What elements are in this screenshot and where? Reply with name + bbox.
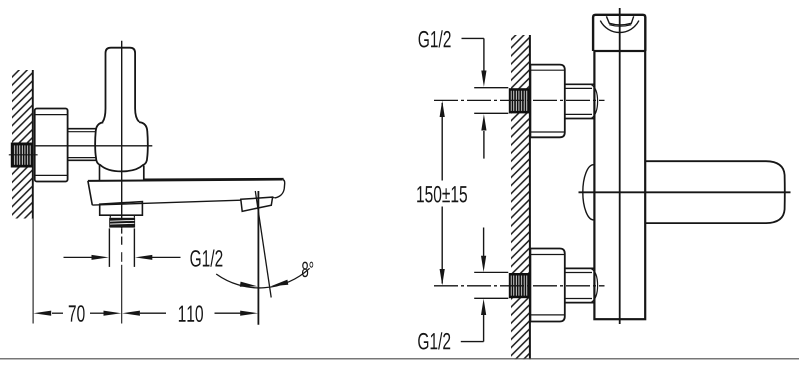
110 label xyxy=(179,305,203,322)
bottom threaded nipple G1/2 xyxy=(509,273,531,298)
bottom line xyxy=(92,200,241,205)
dim 150 top arrowhead xyxy=(440,101,445,117)
top line xyxy=(88,180,282,181)
G1/2 bottom leader arrowhead (up) xyxy=(481,299,486,315)
inlet centerline xyxy=(9,154,38,156)
top threaded nipple G1/2 xyxy=(509,88,531,113)
150+-15 dimension xyxy=(441,103,443,181)
slanted 8 deg line xyxy=(255,191,271,298)
extension lines top nipple xyxy=(474,87,508,89)
tip right edge curve xyxy=(275,180,285,198)
shower outlet collar xyxy=(100,202,143,216)
top eccentric flange xyxy=(530,65,564,138)
G1/2 dimension (outlet) xyxy=(64,256,181,258)
bottom union pipe xyxy=(565,268,598,302)
body neck to spout xyxy=(99,165,101,180)
8 deg angle: vertical reference line xyxy=(257,191,259,325)
extension line to dimension line xyxy=(121,252,123,262)
wall face line xyxy=(32,70,34,219)
wall (hatched) xyxy=(511,35,530,359)
G1/2 bottom label + leader xyxy=(418,332,450,349)
faucet body (tall) xyxy=(594,51,645,319)
threaded outlet ring G1/2 xyxy=(109,218,135,228)
extension lines bottom nipple xyxy=(474,271,508,273)
angle arc xyxy=(216,268,309,288)
aerator mouthpiece (8 deg) xyxy=(241,197,273,211)
dim 70 left arrowhead xyxy=(33,311,51,316)
wall (hatched) xyxy=(12,70,32,219)
handle lever xyxy=(103,48,139,122)
connecting pipe flange-to-body xyxy=(68,129,97,161)
70 label xyxy=(69,305,85,322)
threaded inlet nipple G1/2 xyxy=(11,143,33,168)
arc arrowheads xyxy=(240,282,258,287)
G1/2 bottom arrowhead (down) xyxy=(481,256,486,272)
G1/2 top leader arrowhead (down) xyxy=(481,71,486,87)
handle cap on top xyxy=(593,15,645,51)
top connection centerline (dash-dot) xyxy=(434,99,605,101)
G1/2 dim left arrowhead xyxy=(92,255,109,260)
spout horizontal centerline xyxy=(579,191,791,193)
wall flange (escutcheon) xyxy=(35,109,68,182)
far top edge xyxy=(144,178,283,181)
neck ticks xyxy=(109,215,111,218)
G1/2 top arrowhead (up) xyxy=(481,114,486,130)
horizontal centerline through body xyxy=(35,145,153,147)
bottom eccentric flange xyxy=(530,249,564,322)
left edge xyxy=(88,181,92,205)
dim 110 right arrowhead xyxy=(240,311,258,316)
extension line from wall face (dim 70) xyxy=(32,219,34,324)
G1/2 label (outlet) xyxy=(190,250,222,267)
G1/2 top label + leader xyxy=(419,30,451,47)
handle grip cup xyxy=(606,16,633,25)
vertical centerline through handle/body xyxy=(121,41,123,228)
G1/2 dim right arrowhead xyxy=(135,255,152,260)
bottom dimension line 70 / 110 xyxy=(52,312,241,314)
dashed centerline below outlet xyxy=(121,228,123,245)
bottom connection centerline (dash-dot) xyxy=(434,285,605,287)
dim 150 bottom arrowhead xyxy=(440,269,445,285)
8 deg label xyxy=(302,262,313,278)
up arrow below top nipple xyxy=(483,131,485,159)
handle outer arc xyxy=(600,21,639,33)
down arrow above bottom nipple xyxy=(483,228,485,257)
body vertical centerline xyxy=(619,8,621,324)
wall face line xyxy=(529,35,531,359)
top union pipe xyxy=(565,84,598,118)
bottom rule xyxy=(0,358,799,360)
spout far-side oval on body xyxy=(583,165,594,220)
dim 70 right arrowhead xyxy=(104,311,122,316)
spout (side profile) xyxy=(88,179,285,212)
dim 110 left arrowhead xyxy=(122,311,140,316)
outlet pipe sides / extension lines xyxy=(108,228,110,267)
arc arrowhead right xyxy=(271,280,289,287)
mixer body (barrel) xyxy=(95,122,148,171)
spout (pointing right) xyxy=(645,161,785,223)
